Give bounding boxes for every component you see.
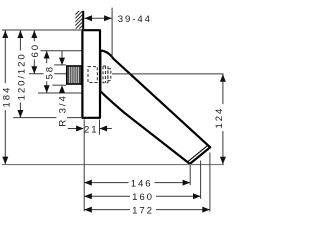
extension line wall plane below — [83, 119, 85, 211]
extension line outlet mid — [200, 161, 202, 199]
dim 120/120 — [19, 30, 21, 117]
dim R 3/4 — [61, 51, 63, 58]
hidden pipe through escutcheon (dashed) — [88, 67, 97, 83]
svg-text:184: 184 — [1, 86, 12, 108]
svg-text:21: 21 — [84, 124, 98, 135]
svg-text:R 3/4: R 3/4 — [57, 94, 68, 126]
extension line pipe top — [53, 64, 67, 66]
dim 160 — [84, 195, 200, 197]
dim 146 — [84, 182, 190, 184]
dim 124 — [222, 74, 224, 164]
dim 184 — [4, 30, 6, 164]
svg-text:172: 172 — [132, 205, 154, 216]
extension line axis left — [29, 73, 66, 75]
svg-text:58: 58 — [45, 65, 56, 79]
base line — [2, 164, 224, 166]
svg-text:60: 60 — [30, 43, 41, 57]
pipe thread hatch — [68, 67, 79, 84]
extension line escutcheon right below — [99, 120, 101, 135]
extension line spout top corner — [209, 153, 211, 212]
svg-text:160: 160 — [132, 192, 154, 203]
extension line spout tip — [189, 165, 191, 185]
dim 39-44 — [84, 17, 111, 19]
svg-text:124: 124 — [214, 107, 225, 129]
extension line spout bottom at wall — [38, 92, 82, 94]
spout outlet inner edge — [188, 145, 208, 162]
top reference line — [2, 29, 82, 31]
extension line spout top level — [41, 50, 82, 52]
svg-text:120/120: 120/120 — [17, 52, 28, 100]
threaded pipe R3/4 — [67, 66, 81, 84]
dim 21 — [68, 128, 83, 130]
dim 172 — [84, 209, 210, 211]
svg-text:146: 146 — [131, 178, 153, 189]
svg-text:39-44: 39-44 — [118, 14, 152, 25]
spout body — [100, 51, 210, 164]
wall face line — [82, 11, 84, 31]
extension line 39-44 — [111, 8, 113, 58]
extension line axis right / 124 top — [112, 73, 224, 75]
extension line pipe bottom — [53, 84, 67, 86]
escutcheon 120/120 — [82, 30, 100, 118]
hidden connector inside spout (dashed) — [103, 66, 108, 83]
extension line escutcheon bottom — [13, 117, 81, 119]
dim 58 — [46, 51, 48, 93]
dim 60 — [33, 30, 35, 73]
